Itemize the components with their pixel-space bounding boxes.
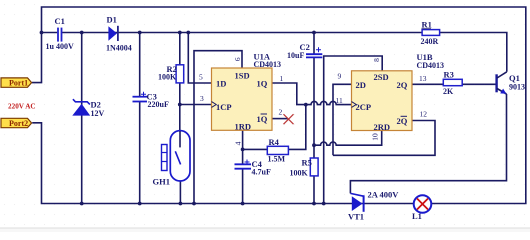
svg-text:9013: 9013 bbox=[509, 83, 525, 92]
junction C2 top bbox=[312, 31, 316, 35]
port Port2 bbox=[1, 118, 32, 128]
svg-text:2A 400V: 2A 400V bbox=[368, 190, 400, 200]
svg-text:Port2: Port2 bbox=[9, 119, 28, 128]
svg-text:GH1: GH1 bbox=[153, 176, 170, 186]
svg-text:12V: 12V bbox=[91, 109, 105, 118]
wire GH1 lower lead bbox=[179, 164, 181, 203]
wire C2 branch bbox=[313, 33, 315, 204]
svg-text:Port1: Port1 bbox=[9, 78, 28, 87]
capacitor C4 bbox=[235, 159, 271, 177]
svg-text:1RD: 1RD bbox=[235, 121, 252, 131]
wire C3 branch bbox=[139, 33, 141, 204]
junction R2 top bbox=[178, 31, 182, 35]
svg-text:11: 11 bbox=[336, 96, 343, 105]
resistor R2 bbox=[158, 64, 184, 83]
op-amp U1A CD4013 flip-flop bbox=[199, 52, 284, 146]
resistor R1 bbox=[421, 20, 440, 46]
svg-text:Q1: Q1 bbox=[509, 73, 520, 83]
wire 2D pin 9 riser bbox=[333, 84, 352, 155]
junction Port1/C1 rail bbox=[40, 31, 44, 35]
no-connect X on pin 2 bbox=[284, 114, 294, 124]
svg-text:2RD: 2RD bbox=[374, 122, 391, 132]
svg-text:2Q: 2Q bbox=[397, 80, 408, 90]
junction 1Q/R4 node bbox=[304, 103, 308, 107]
svg-text:10uF: 10uF bbox=[287, 51, 304, 60]
svg-text:2CP: 2CP bbox=[356, 102, 372, 112]
sheet bottom edge bbox=[0, 228, 530, 232]
wire 1RD / C4 branch pin 4 bbox=[242, 130, 244, 203]
svg-text:10: 10 bbox=[371, 133, 380, 141]
svg-text:240R: 240R bbox=[421, 37, 439, 46]
resistor R4 bbox=[267, 137, 288, 163]
junction D2 bottom rail bbox=[80, 202, 84, 206]
diode D1 bbox=[106, 14, 132, 52]
wire 1CP pin 3 bbox=[180, 104, 212, 106]
junction 1RD/R4/C4 node bbox=[241, 148, 245, 152]
svg-text:C1: C1 bbox=[55, 16, 65, 26]
resistor R3 bbox=[443, 70, 462, 96]
junction D2 top bbox=[80, 31, 84, 35]
junction C4 bottom rail bbox=[241, 202, 245, 206]
wire 2SD ground / pin 8 loop bbox=[324, 56, 383, 204]
wire ground line / 1SD pin 6 loop bbox=[194, 51, 242, 204]
svg-text:2: 2 bbox=[279, 108, 283, 117]
lamp L1 bbox=[412, 195, 431, 221]
svg-text:D1: D1 bbox=[107, 14, 117, 24]
svg-text:CD4013: CD4013 bbox=[417, 61, 445, 70]
junction C3 bottom rail bbox=[138, 202, 142, 206]
svg-text:13: 13 bbox=[419, 74, 427, 83]
svg-text:1Q: 1Q bbox=[257, 79, 268, 89]
svg-text:L1: L1 bbox=[412, 211, 422, 221]
wire 1D riser to pin 5 bbox=[188, 33, 211, 84]
wire main rail y=32.5 bbox=[42, 33, 507, 72]
svg-text:100K: 100K bbox=[158, 73, 177, 82]
junction R2/1CP node bbox=[178, 103, 182, 107]
svg-text:9: 9 bbox=[338, 72, 342, 81]
svg-text:6: 6 bbox=[233, 57, 242, 61]
svg-text:1: 1 bbox=[280, 74, 284, 83]
svg-text:2Q: 2Q bbox=[397, 116, 408, 126]
svg-text:4.7uF: 4.7uF bbox=[252, 168, 271, 177]
capacitor C1 bbox=[46, 16, 74, 51]
svg-text:CD4013: CD4013 bbox=[254, 60, 282, 69]
svg-text:R1: R1 bbox=[422, 20, 432, 30]
svg-text:1D: 1D bbox=[216, 79, 226, 89]
svg-text:3: 3 bbox=[200, 94, 204, 103]
svg-text:4: 4 bbox=[234, 141, 243, 145]
wire 2RD pin 10 line with hops bbox=[314, 131, 382, 146]
svg-text:1.5M: 1.5M bbox=[268, 154, 286, 163]
wire R4 line bbox=[243, 105, 306, 150]
junction C2/R5/2RD node bbox=[312, 143, 316, 147]
svg-text:R5: R5 bbox=[302, 158, 312, 168]
junction 1D riser bbox=[186, 31, 190, 35]
wire 2Q pin 13 to Q1 base bbox=[412, 83, 496, 85]
capacitor C3 bbox=[133, 92, 169, 110]
svg-text:R4: R4 bbox=[269, 137, 280, 147]
wire D2 branch bbox=[81, 33, 83, 204]
wire 2Qbar pin 12 feedback bbox=[333, 121, 435, 156]
thyristor VT1 bbox=[348, 190, 399, 222]
svg-text:220uF: 220uF bbox=[148, 100, 169, 109]
junction 2SD ground rail bbox=[322, 202, 326, 206]
wire 1Qbar pin 2 stub bbox=[272, 118, 288, 120]
svg-text:VT1: VT1 bbox=[348, 212, 364, 222]
junction C3 top bbox=[138, 31, 142, 35]
svg-text:1u 400V: 1u 400V bbox=[46, 42, 74, 51]
junction GH1 bottom rail bbox=[179, 202, 183, 206]
svg-text:2K: 2K bbox=[443, 87, 454, 96]
junction R5 bottom rail bbox=[312, 202, 316, 206]
wire outer loop: top rail, right edge, bottom rail, Port1/Port2 stubs bbox=[32, 7, 526, 204]
svg-text:220V AC: 220V AC bbox=[8, 102, 36, 110]
svg-text:1SD: 1SD bbox=[235, 71, 250, 81]
op-amp U1B CD4013 flip-flop bbox=[336, 52, 445, 141]
svg-text:1CP: 1CP bbox=[216, 102, 232, 112]
svg-text:2D: 2D bbox=[356, 80, 366, 90]
wire R2 / GH1 branch bbox=[179, 33, 181, 148]
junction 1SD ground rail bbox=[192, 202, 196, 206]
wire 1Q pin 1 to 2CP pin 11 with hops bbox=[272, 83, 352, 105]
resistor R5 bbox=[290, 158, 319, 178]
svg-text:1Q: 1Q bbox=[257, 114, 268, 124]
port Port1 bbox=[1, 78, 32, 88]
svg-text:8: 8 bbox=[372, 58, 381, 62]
capacitor C2 bbox=[287, 42, 322, 60]
svg-text:2SD: 2SD bbox=[374, 72, 389, 82]
svg-text:5: 5 bbox=[199, 73, 203, 82]
zener diode D2 bbox=[72, 99, 104, 118]
switch GH1 bbox=[153, 131, 191, 187]
svg-text:R3: R3 bbox=[444, 70, 454, 80]
svg-text:1N4004: 1N4004 bbox=[106, 43, 132, 52]
wire Q1 emitter to VT1 gate bbox=[350, 94, 506, 193]
svg-text:12: 12 bbox=[420, 110, 428, 119]
transistor Q1 bbox=[497, 72, 525, 94]
svg-text:100K: 100K bbox=[290, 169, 309, 178]
